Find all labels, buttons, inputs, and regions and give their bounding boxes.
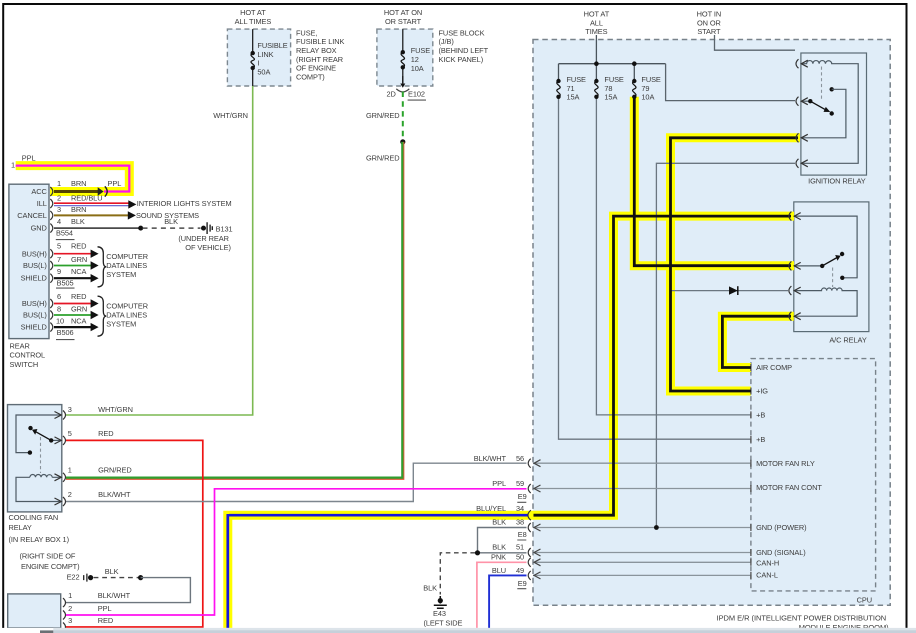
svg-text:50A: 50A bbox=[257, 68, 270, 77]
wire: BRN pin3 to sound systems bbox=[54, 214, 128, 216]
svg-text:3: 3 bbox=[68, 405, 72, 414]
svg-text:SHIELD: SHIELD bbox=[21, 274, 47, 283]
svg-text:NCA: NCA bbox=[71, 316, 87, 325]
svg-text:BLK: BLK bbox=[71, 217, 85, 226]
wire: fuse71 output to +B bbox=[559, 97, 751, 439]
brace computer data lines 1 bbox=[98, 247, 107, 287]
ignition relay box bbox=[801, 53, 867, 175]
wire: GRN/RED solid to cooling fan relay pin1 bbox=[66, 142, 404, 479]
wire: ignition relay pin4 to GND(POWER) junction bbox=[656, 163, 795, 527]
wire: A/C relay pin1 to contact bbox=[794, 216, 857, 278]
data line arrows bbox=[91, 250, 99, 332]
wire: BLK 51 to ground junction bbox=[478, 552, 527, 554]
svg-text:10A: 10A bbox=[641, 93, 654, 102]
wire: E22 ground path to bottom box pin1 bbox=[94, 577, 139, 579]
svg-text:PPL: PPL bbox=[98, 604, 112, 613]
junction dot bbox=[400, 139, 405, 144]
svg-text:5: 5 bbox=[57, 241, 61, 250]
svg-text:BLK: BLK bbox=[492, 542, 506, 551]
wire: A/C relay coil feed with diode bbox=[672, 290, 789, 292]
svg-text:2: 2 bbox=[68, 490, 72, 499]
svg-text:E43: E43 bbox=[433, 609, 446, 618]
svg-text:BLK: BLK bbox=[164, 217, 178, 226]
svg-text:49: 49 bbox=[516, 566, 524, 575]
svg-text:5: 5 bbox=[68, 429, 72, 438]
core: ignition pin3 to +IG black bbox=[671, 138, 799, 391]
bottom box pin arcs bbox=[63, 598, 66, 631]
svg-text:GRN/RED: GRN/RED bbox=[366, 154, 400, 163]
svg-text:ON OR: ON OR bbox=[697, 18, 721, 27]
svg-text:KICK PANEL): KICK PANEL) bbox=[439, 55, 484, 64]
svg-text:START: START bbox=[697, 27, 721, 36]
svg-text:38: 38 bbox=[516, 517, 524, 526]
svg-text:BUS(H): BUS(H) bbox=[22, 299, 47, 308]
wire: BLK/WHT cooling fan pin2 to IPDM pin56 bbox=[66, 463, 527, 501]
svg-text:COMPT): COMPT) bbox=[296, 72, 325, 81]
wire: fuse78 output to +B bbox=[596, 97, 751, 415]
svg-text:+B: +B bbox=[756, 435, 765, 444]
wire: GND(SIGNAL) row inside IPDM bbox=[533, 552, 751, 554]
coil-switch dashed link bbox=[821, 67, 823, 100]
connector E22 symbol bbox=[88, 575, 93, 580]
wire: GRN pin8 bbox=[54, 314, 91, 316]
svg-text:1: 1 bbox=[68, 466, 72, 475]
highlight: PPL feed to rear control switch pin1 bbox=[16, 166, 130, 192]
coil: ignition relay bbox=[801, 61, 858, 164]
wire: WHT/GRN fusible link to cooling fan relay pin3 bbox=[66, 86, 253, 415]
ignition relay pin arcs + arrows bbox=[796, 59, 808, 168]
svg-text:E22: E22 bbox=[67, 573, 80, 582]
svg-text:BUS(L): BUS(L) bbox=[23, 311, 47, 320]
svg-text:MOTOR FAN CONT: MOTOR FAN CONT bbox=[756, 483, 822, 492]
highlight: fuse79 to A/C relay pin2 bbox=[634, 97, 794, 266]
svg-text:15A: 15A bbox=[604, 93, 617, 102]
svg-text:15A: 15A bbox=[567, 93, 580, 102]
coil: A/C relay bbox=[794, 288, 857, 316]
svg-text:PPL: PPL bbox=[492, 479, 506, 488]
svg-text:ALL: ALL bbox=[590, 18, 603, 27]
svg-text:BLK: BLK bbox=[492, 517, 506, 526]
svg-text:+B: +B bbox=[756, 411, 765, 420]
svg-text:GRN: GRN bbox=[71, 255, 87, 264]
svg-text:ACC: ACC bbox=[31, 187, 47, 196]
svg-text:CAN-L: CAN-L bbox=[756, 571, 778, 580]
svg-text:9: 9 bbox=[57, 267, 61, 276]
svg-text:E9: E9 bbox=[518, 579, 527, 588]
svg-text:RED/BLU: RED/BLU bbox=[71, 193, 102, 202]
svg-text:RED: RED bbox=[71, 241, 86, 250]
svg-text:(LEFT SIDE: (LEFT SIDE bbox=[423, 618, 462, 627]
wire: CAN-H row inside IPDM bbox=[533, 561, 751, 563]
arrow interior lights bbox=[128, 200, 136, 208]
svg-text:(RIGHT REAR: (RIGHT REAR bbox=[296, 55, 343, 64]
svg-text:51: 51 bbox=[516, 542, 524, 551]
svg-text:CANCEL: CANCEL bbox=[17, 211, 47, 220]
svg-text:FUSE: FUSE bbox=[641, 75, 661, 84]
core: fuse79 to A/C pin2 black bbox=[634, 97, 791, 266]
svg-text:E9: E9 bbox=[518, 492, 527, 501]
fuse 71 15A bbox=[557, 81, 560, 97]
svg-text:2: 2 bbox=[68, 604, 72, 613]
svg-text:AIR COMP: AIR COMP bbox=[756, 363, 792, 372]
fuse 79 10A bbox=[633, 81, 636, 97]
svg-text:3: 3 bbox=[57, 205, 61, 214]
svg-text:RED: RED bbox=[98, 616, 113, 625]
svg-text:GRN/RED: GRN/RED bbox=[98, 466, 132, 475]
coil-switch dashed link bbox=[40, 437, 42, 473]
svg-text:HOT AT ON: HOT AT ON bbox=[384, 8, 422, 17]
connector 2D / E102 bbox=[402, 76, 404, 85]
svg-text:FUSE: FUSE bbox=[567, 75, 587, 84]
connector B131 symbol bbox=[201, 226, 206, 231]
svg-text:FUSIBLE: FUSIBLE bbox=[257, 41, 287, 50]
svg-text:10: 10 bbox=[56, 316, 64, 325]
svg-text:NCA: NCA bbox=[71, 267, 87, 276]
highlight: A/C relay pin1 to pin34 BLU/YEL bbox=[228, 216, 794, 628]
svg-text:78: 78 bbox=[604, 84, 612, 93]
svg-text:1: 1 bbox=[57, 179, 61, 188]
svg-text:PPL: PPL bbox=[22, 154, 36, 163]
wire: CAN-L row inside IPDM bbox=[533, 574, 751, 576]
svg-text:B505: B505 bbox=[57, 278, 74, 287]
svg-text:BLK: BLK bbox=[105, 567, 119, 576]
svg-text:2D: 2D bbox=[387, 89, 396, 98]
svg-text:RELAY: RELAY bbox=[9, 523, 32, 532]
a/c relay box bbox=[794, 202, 869, 332]
svg-text:FUSE: FUSE bbox=[411, 46, 431, 55]
svg-text:BLK/WHT: BLK/WHT bbox=[98, 490, 131, 499]
svg-text:71: 71 bbox=[567, 84, 575, 93]
bottom connector box bbox=[8, 594, 61, 628]
svg-text:HOT IN: HOT IN bbox=[697, 10, 721, 19]
wire: GND(POWER) row inside IPDM bbox=[533, 527, 751, 529]
svg-text:+IG: +IG bbox=[756, 387, 768, 396]
svg-text:IPDM E/R (INTELLIGENT POWER DI: IPDM E/R (INTELLIGENT POWER DISTRIBUTION bbox=[717, 613, 887, 622]
svg-text:OF ENGINE: OF ENGINE bbox=[296, 64, 336, 73]
diode bbox=[729, 286, 738, 294]
svg-text:COMPUTER: COMPUTER bbox=[106, 252, 148, 261]
rear control switch box bbox=[9, 184, 49, 338]
junction: GND(POWER) dot bbox=[654, 525, 659, 530]
CPU dashed box bbox=[751, 359, 876, 591]
svg-text:REAR: REAR bbox=[10, 341, 30, 350]
svg-text:BRN: BRN bbox=[71, 205, 86, 214]
fuse block J/B box (dashed) bbox=[377, 29, 433, 86]
svg-text:79: 79 bbox=[641, 84, 649, 93]
svg-text:(IN RELAY BOX 1): (IN RELAY BOX 1) bbox=[9, 535, 69, 544]
svg-text:I: I bbox=[257, 59, 259, 68]
svg-text:SYSTEM: SYSTEM bbox=[106, 270, 136, 279]
svg-text:LINK: LINK bbox=[257, 50, 273, 59]
svg-text:BLU: BLU bbox=[492, 566, 506, 575]
highlight: ignition relay pin3 to +IG bbox=[671, 138, 801, 391]
svg-text:B554: B554 bbox=[56, 229, 73, 238]
wire: HOT IN ON OR START feed to ignition relay pin1 bbox=[715, 35, 796, 50]
coil: cooling fan relay bbox=[30, 475, 61, 478]
svg-text:BUS(L): BUS(L) bbox=[23, 261, 47, 270]
svg-text:GRN/RED: GRN/RED bbox=[366, 111, 400, 120]
fuse 78 15A bbox=[595, 81, 598, 97]
svg-text:GND (SIGNAL): GND (SIGNAL) bbox=[756, 548, 806, 557]
svg-text:TIMES: TIMES bbox=[585, 27, 607, 36]
wire: coil return to pin2 bbox=[16, 477, 61, 501]
wire: MOTOR FAN CONT row inside IPDM bbox=[533, 488, 751, 490]
fusible link I 50A bbox=[251, 29, 254, 86]
svg-text:B131: B131 bbox=[216, 225, 233, 234]
core: A/C pin1 to box edge black bbox=[534, 216, 792, 515]
svg-text:12: 12 bbox=[411, 55, 419, 64]
core: PPL feed magenta bbox=[16, 166, 130, 192]
wire: BLK 38 to ground junction bbox=[478, 528, 527, 553]
svg-text:(UNDER REAR: (UNDER REAR bbox=[178, 234, 228, 243]
svg-text:DATA LINES: DATA LINES bbox=[106, 311, 147, 320]
svg-text:OF VEHICLE): OF VEHICLE) bbox=[185, 243, 231, 252]
wire: BLU 49 bbox=[489, 575, 526, 628]
svg-text:WHT/GRN: WHT/GRN bbox=[98, 405, 133, 414]
svg-text:CPU: CPU bbox=[857, 596, 872, 605]
svg-text:2: 2 bbox=[57, 193, 61, 202]
CPU pin ticks bbox=[750, 364, 752, 579]
svg-text:FUSE,: FUSE, bbox=[296, 28, 317, 37]
svg-text:CAN-H: CAN-H bbox=[756, 559, 779, 568]
svg-text:DATA LINES: DATA LINES bbox=[106, 261, 147, 270]
svg-text:MOTOR FAN RLY: MOTOR FAN RLY bbox=[756, 459, 815, 468]
wire: NCA pin10 bbox=[54, 326, 91, 328]
wire: RED cooling fan pin5 to bottom box pin3 bbox=[66, 440, 203, 627]
cooling fan relay box bbox=[8, 405, 62, 512]
svg-text:BLK/WHT: BLK/WHT bbox=[474, 454, 507, 463]
svg-text:GRN: GRN bbox=[71, 305, 87, 314]
svg-text:1: 1 bbox=[68, 591, 72, 600]
svg-text:PNK: PNK bbox=[491, 552, 506, 561]
ground E43 bbox=[438, 598, 443, 603]
svg-text:4: 4 bbox=[57, 217, 61, 226]
svg-text:FUSE: FUSE bbox=[604, 75, 624, 84]
fuse 12 10A bbox=[401, 29, 404, 83]
svg-text:INTERIOR LIGHTS SYSTEM: INTERIOR LIGHTS SYSTEM bbox=[137, 199, 232, 208]
wire: ignition relay contact to pin3 bbox=[801, 89, 846, 138]
svg-text:RED: RED bbox=[71, 292, 86, 301]
svg-text:BLK/WHT: BLK/WHT bbox=[98, 591, 131, 600]
junction: bus dots bbox=[594, 61, 599, 66]
svg-text:59: 59 bbox=[516, 479, 524, 488]
core: A/C pin4 to AIR COMP black bbox=[722, 316, 791, 367]
inline connector row1 bbox=[98, 187, 104, 195]
core: BRN wire pin1 bbox=[54, 190, 99, 193]
svg-text:PPL: PPL bbox=[108, 179, 122, 188]
svg-text:SWITCH: SWITCH bbox=[10, 360, 39, 369]
svg-text:A/C RELAY: A/C RELAY bbox=[829, 335, 866, 344]
svg-text:(BEHIND LEFT: (BEHIND LEFT bbox=[439, 46, 489, 55]
IPDM left edge pin arcs + arrows bbox=[528, 459, 531, 580]
svg-text:GND: GND bbox=[31, 223, 47, 232]
cooling fan relay pin arcs + arrows bbox=[55, 411, 66, 507]
wire: bus to ignition relay pin2 bbox=[666, 64, 795, 101]
svg-text:OR START: OR START bbox=[385, 17, 422, 26]
switch: A/C relay bbox=[794, 265, 822, 267]
svg-text:50: 50 bbox=[516, 552, 524, 561]
svg-text:COMPUTER: COMPUTER bbox=[106, 301, 148, 310]
svg-text:34: 34 bbox=[516, 504, 524, 513]
wire: GRN/RED dashed below E102 bbox=[402, 92, 404, 142]
svg-text:(J/B): (J/B) bbox=[439, 37, 454, 46]
svg-text:ILL: ILL bbox=[37, 199, 47, 208]
rear control switch pin arcs bbox=[50, 187, 53, 332]
switch: cooling fan relay bbox=[51, 439, 61, 441]
wire: fuse supply bus bbox=[559, 64, 666, 81]
svg-text:E8: E8 bbox=[518, 530, 527, 539]
wire: PNK 50 bbox=[477, 562, 527, 628]
svg-text:HOT AT: HOT AT bbox=[584, 10, 610, 19]
svg-text:FUSE BLOCK: FUSE BLOCK bbox=[439, 28, 485, 37]
brace computer data lines 2 bbox=[98, 296, 107, 336]
svg-text:6: 6 bbox=[57, 292, 61, 301]
svg-text:E102: E102 bbox=[408, 89, 425, 98]
svg-text:HOT AT: HOT AT bbox=[240, 8, 266, 17]
svg-text:BUS(H): BUS(H) bbox=[22, 249, 47, 258]
wire: PPL bottom box pin2 to IPDM pin59 bbox=[66, 489, 527, 615]
svg-text:(RIGHT SIDE OF: (RIGHT SIDE OF bbox=[20, 551, 76, 560]
svg-text:COOLING FAN: COOLING FAN bbox=[9, 513, 59, 522]
wire: RED/BLU pin2 to interior lights bbox=[54, 202, 129, 204]
svg-text:1: 1 bbox=[11, 161, 15, 170]
svg-text:FUSIBLE LINK: FUSIBLE LINK bbox=[296, 37, 344, 46]
wire: dashed BLK to E43 bbox=[440, 553, 475, 595]
wire: MOTOR FAN RLY row inside IPDM bbox=[533, 462, 751, 464]
svg-text:RELAY BOX: RELAY BOX bbox=[296, 46, 337, 55]
wire: RED pin5 bbox=[54, 253, 91, 255]
A/C relay pin arcs + arrows bbox=[789, 212, 801, 321]
fusible link relay box (dashed) bbox=[227, 29, 290, 86]
coil-switch dashed link bbox=[832, 268, 834, 288]
svg-text:WHT/GRN: WHT/GRN bbox=[213, 111, 248, 120]
svg-text:BLU/YEL: BLU/YEL bbox=[476, 504, 506, 513]
svg-text:BRN: BRN bbox=[71, 179, 86, 188]
svg-text:ENGINE COMPT): ENGINE COMPT) bbox=[21, 562, 80, 571]
svg-text:10A: 10A bbox=[411, 64, 424, 73]
svg-text:7: 7 bbox=[57, 255, 61, 264]
svg-text:BLK: BLK bbox=[423, 584, 437, 593]
svg-text:56: 56 bbox=[516, 454, 524, 463]
wire: pin3 to lower contact bbox=[16, 415, 61, 453]
wire: BLK pin4 to B131 bbox=[54, 227, 141, 229]
wire: HOT AT ALL TIMES feed to fuse bus bbox=[595, 35, 597, 64]
svg-text:SYSTEM: SYSTEM bbox=[106, 320, 136, 329]
svg-text:IGNITION RELAY: IGNITION RELAY bbox=[808, 177, 866, 186]
svg-text:B506: B506 bbox=[57, 328, 74, 337]
svg-text:GND (POWER): GND (POWER) bbox=[756, 523, 806, 532]
wire: NCA pin9 bbox=[54, 277, 91, 279]
highlight: A/C relay pin4 to AIR COMP bbox=[722, 316, 793, 367]
wire: GRN pin7 bbox=[54, 265, 91, 267]
IPDM E/R dashed box bbox=[533, 40, 890, 606]
switch: ignition relay bbox=[801, 100, 810, 102]
wire: RED pin6 bbox=[54, 303, 91, 305]
svg-text:RED: RED bbox=[98, 429, 113, 438]
bottom scrollbar strip bbox=[0, 628, 916, 633]
svg-text:8: 8 bbox=[57, 305, 61, 314]
svg-text:SHIELD: SHIELD bbox=[21, 323, 47, 332]
core: BLU/YEL 34 blue bbox=[228, 514, 528, 628]
svg-text:ALL TIMES: ALL TIMES bbox=[235, 17, 272, 26]
svg-text:CONTROL: CONTROL bbox=[10, 351, 46, 360]
svg-text:3: 3 bbox=[68, 616, 72, 625]
